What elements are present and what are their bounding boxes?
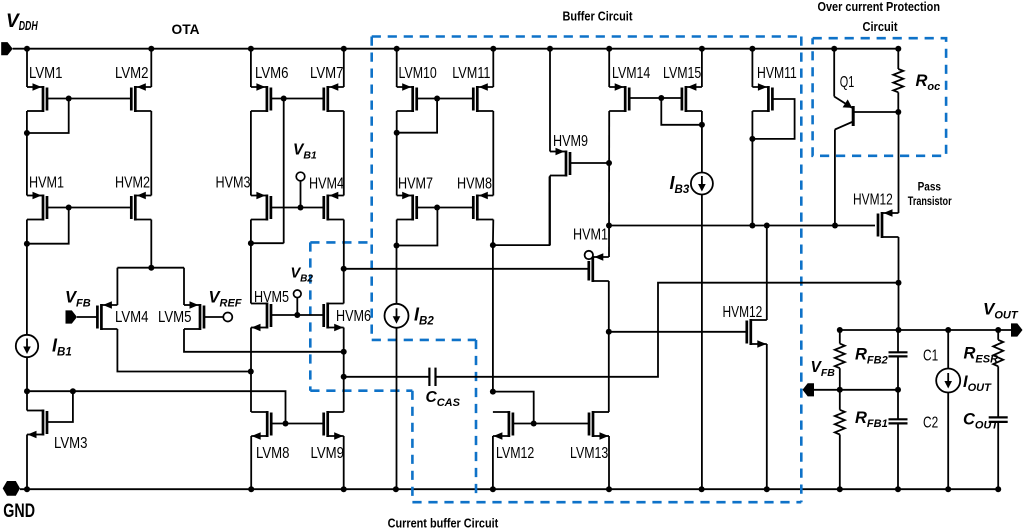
svg-text:LVM4: LVM4 bbox=[115, 309, 149, 326]
wire IB1 to LVM3 node bbox=[26, 357, 28, 391]
wire LVM10 source bbox=[396, 49, 398, 87]
junction LVM5 drain HVM6 source bbox=[341, 349, 347, 355]
wire LVM7 source bbox=[343, 49, 345, 87]
dashed Buffer Circuit box right bbox=[800, 37, 803, 503]
svg-text:LVM15: LVM15 bbox=[663, 65, 701, 82]
svg-text:HVM7: HVM7 bbox=[398, 176, 433, 193]
junction LVM10 gate node bbox=[434, 96, 440, 102]
junction pass drain VOUT bbox=[896, 327, 902, 333]
wire HVM11 gate tie bbox=[752, 99, 794, 139]
dashed Current buffer box left bbox=[309, 242, 312, 390]
svg-text:LVM14: LVM14 bbox=[612, 65, 651, 82]
junction HVM7 drain node bbox=[394, 243, 400, 249]
junction HVM1 gate node bbox=[66, 205, 72, 211]
junction on VDDH rail bbox=[749, 46, 755, 52]
junction on GND rail bbox=[945, 486, 951, 492]
wire VFB feedback bbox=[814, 389, 898, 391]
dashed Current buffer box bottom bbox=[310, 389, 412, 392]
svg-text:Over current Protection: Over current Protection bbox=[818, 0, 941, 14]
junction on GND rail bbox=[24, 486, 30, 492]
junction OTA output node bbox=[341, 266, 347, 272]
wire Roc bottom bbox=[897, 92, 899, 112]
junction on VDDH rail bbox=[394, 46, 400, 52]
junction on VDDH rail bbox=[248, 46, 254, 52]
svg-text:LVM7: LVM7 bbox=[310, 65, 344, 82]
transistor LVM9 bbox=[311, 411, 345, 462]
transistor HVM3 bbox=[216, 175, 271, 221]
junction LVM14 gate node bbox=[658, 95, 664, 101]
svg-text:Pass: Pass bbox=[918, 180, 941, 194]
wire VDDH top rail bbox=[13, 48, 899, 50]
wire LVM14 source bbox=[608, 49, 610, 87]
junction on GND rail bbox=[764, 486, 770, 492]
wire HVM4 drain to OTA output bbox=[343, 220, 345, 269]
transistor HVM12b bbox=[723, 304, 767, 348]
svg-text:CCAS: CCAS bbox=[426, 389, 461, 409]
junction on VDDH rail bbox=[341, 46, 347, 52]
wire LVM14-LVM15 gates bbox=[629, 97, 682, 99]
wire VFB to LVM4 gate bbox=[77, 316, 97, 318]
svg-text:Circuit: Circuit bbox=[863, 20, 899, 34]
svg-text:VB1: VB1 bbox=[293, 142, 317, 162]
dashed Buffer Circuit box top bbox=[372, 35, 802, 38]
wire HVM1-HVM2 gates bbox=[47, 207, 131, 209]
junction IB1 LVM3 drain node bbox=[24, 388, 30, 394]
transistor HVM6 bbox=[324, 303, 371, 332]
wire LVM15 drain to IB3 bbox=[701, 125, 703, 173]
junction LVM6 gate node bbox=[281, 96, 287, 102]
wire buffer HVM12 source to GND bbox=[766, 344, 768, 489]
wire HVM5-HVM6 gates bbox=[271, 314, 323, 316]
wire HVM3 drain to HVM5 bbox=[250, 220, 252, 304]
wire buffer HVM12 drain bbox=[766, 226, 768, 321]
transistor LVM3 bbox=[27, 410, 88, 453]
svg-text:HVM11: HVM11 bbox=[757, 65, 797, 82]
junction HVM11 on gate wire bbox=[749, 223, 755, 229]
svg-text:LVM2: LVM2 bbox=[115, 65, 149, 82]
transistor LVM6 bbox=[251, 65, 289, 112]
junction CCAS VOUT tap bbox=[896, 280, 902, 286]
transistor LVM11 bbox=[452, 65, 493, 112]
junction IOUT top bbox=[945, 327, 951, 333]
junction RFB2 top bbox=[837, 327, 843, 333]
svg-text:Transistor: Transistor bbox=[908, 194, 952, 208]
wire LVM1 drain to HVM1 bbox=[26, 111, 28, 196]
ground GND symbol bbox=[3, 481, 20, 496]
dashed Current buffer box right bbox=[411, 391, 414, 503]
wire COUT to GND bbox=[997, 422, 999, 489]
junction LVM4 drain HVM5 source bbox=[248, 369, 254, 375]
junction on GND rail bbox=[895, 486, 901, 492]
wire Q1 base to Roc bbox=[853, 111, 898, 113]
junction on VDDH rail bbox=[831, 46, 837, 52]
wire C1 bottom lead bbox=[897, 356, 899, 389]
wire HVM11 drain from rail bbox=[751, 49, 753, 87]
junction LVM15 drain node bbox=[699, 122, 705, 128]
wire CCAS left bbox=[344, 376, 430, 378]
current source IOUT bbox=[936, 369, 960, 393]
junction on GND rail bbox=[699, 486, 705, 492]
junction Roc bottom node bbox=[895, 109, 901, 115]
svg-text:HVM3: HVM3 bbox=[216, 175, 251, 192]
transistor LVM15 bbox=[663, 65, 702, 112]
resistor RESR bbox=[993, 340, 1003, 367]
wire CCAS to VOUT bbox=[436, 283, 899, 377]
wire VB2 stem bbox=[296, 298, 298, 315]
junction RESR top bbox=[995, 327, 1001, 333]
svg-text:OTA: OTA bbox=[172, 22, 200, 37]
wire HVM11 source down bbox=[751, 111, 753, 226]
wire HVM3 drain tie bbox=[251, 242, 284, 244]
junction on GND rail bbox=[393, 486, 399, 492]
svg-text:IB3: IB3 bbox=[670, 173, 690, 196]
junction LVM8 gate node bbox=[283, 421, 289, 427]
wire Roc top bbox=[897, 49, 899, 69]
transistor LVM7 bbox=[310, 65, 344, 112]
transistor HVM1 bbox=[573, 227, 609, 283]
svg-text:Roc: Roc bbox=[916, 72, 941, 93]
wire LVM3 gate tie bbox=[47, 391, 73, 422]
junction on VDDH rail bbox=[606, 46, 612, 52]
capacitor C2 bbox=[889, 419, 908, 423]
svg-text:LVM9: LVM9 bbox=[311, 445, 345, 462]
wire IOUT to GND bbox=[947, 393, 949, 490]
wire IB2 top bbox=[396, 246, 398, 305]
wire LVM10 gate-drain tie bbox=[397, 99, 437, 133]
wire Roc to HVM12 source bbox=[898, 112, 900, 213]
wire LVM8-LVM9 gates bbox=[271, 423, 323, 425]
svg-text:HVM1: HVM1 bbox=[573, 227, 608, 244]
wire RFB1 to GND bbox=[839, 435, 841, 490]
wire LVM2 drain to HVM2 bbox=[150, 111, 152, 196]
wire LVM11 source bbox=[492, 49, 494, 87]
transistor LVM12 bbox=[493, 411, 534, 462]
svg-text:C1: C1 bbox=[923, 348, 938, 365]
wire LVM13 source to GND bbox=[608, 436, 610, 489]
wire LVM3 source to GND bbox=[26, 435, 28, 490]
junction on GND rail bbox=[606, 486, 612, 492]
wire LVM8 source to GND bbox=[250, 436, 252, 489]
svg-text:HVM12: HVM12 bbox=[853, 192, 893, 209]
junction HVM8 drain node bbox=[490, 242, 496, 248]
svg-text:RFB2: RFB2 bbox=[855, 346, 888, 367]
svg-text:VB2: VB2 bbox=[291, 266, 314, 285]
junction on VDDH rail bbox=[547, 46, 553, 52]
junction HVM9 gate node bbox=[606, 160, 612, 166]
dashed Buffer Circuit box left bbox=[370, 37, 373, 340]
wire RFB2 to RFB1 bbox=[839, 368, 841, 410]
terminal VFB input bbox=[66, 310, 78, 323]
transistor LVM14 bbox=[609, 65, 650, 112]
current source IB2 bbox=[385, 304, 409, 328]
junction on GND rail bbox=[248, 486, 254, 492]
wire LVM4 drain to HVM5 source node bbox=[117, 329, 250, 372]
junction HVM3 drain node bbox=[248, 240, 254, 246]
transistor HVM8 bbox=[457, 176, 493, 221]
wire LVM11 drain to HVM8 bbox=[492, 111, 494, 196]
wire LVM5 gate to VREF bbox=[204, 316, 223, 318]
wire LVM1 gate-drain tie bbox=[27, 99, 69, 134]
junction VB2 node bbox=[294, 312, 300, 318]
wire IOUT top lead bbox=[947, 330, 949, 369]
resistor Roc bbox=[893, 69, 903, 92]
svg-text:GND: GND bbox=[3, 501, 35, 522]
wire LVM4 source bbox=[116, 268, 118, 305]
svg-text:HVM8: HVM8 bbox=[457, 176, 492, 193]
wire HVM8 drain down to LVM12 bbox=[492, 220, 494, 392]
transistor HVM2 bbox=[115, 175, 151, 221]
svg-text:HVM9: HVM9 bbox=[553, 133, 588, 150]
dashed Buffer Circuit box step bbox=[372, 339, 476, 342]
wire HVM9 drain from rail bbox=[549, 49, 551, 152]
svg-text:LVM1: LVM1 bbox=[29, 65, 63, 82]
wire VB1 stem bbox=[300, 181, 302, 208]
wire LVM6-LVM7 gates bbox=[271, 98, 324, 100]
svg-text:HVM4: HVM4 bbox=[309, 176, 344, 193]
svg-text:RESR: RESR bbox=[964, 345, 999, 366]
junction HVM11 source node bbox=[749, 136, 755, 142]
svg-text:VFB: VFB bbox=[65, 289, 91, 310]
wire HVM1 gate-drain tie bbox=[27, 208, 69, 244]
wire to HVM12 gate bbox=[609, 331, 747, 333]
wire IB2 to GND bbox=[396, 328, 398, 489]
svg-text:RFB1: RFB1 bbox=[855, 409, 888, 430]
svg-text:VREF: VREF bbox=[209, 289, 242, 310]
transistor LVM13 bbox=[570, 411, 609, 462]
wire HVM5 source to LVM8 drain bbox=[250, 328, 252, 413]
svg-text:Q1: Q1 bbox=[840, 74, 855, 91]
wire LVM5 source bbox=[183, 268, 185, 305]
junction LVM12 drain node bbox=[490, 389, 496, 395]
svg-text:LVM13: LVM13 bbox=[570, 445, 608, 462]
junction LVM1 drain node bbox=[24, 130, 30, 136]
svg-text:LVM6: LVM6 bbox=[255, 65, 289, 82]
junction on VDDH rail bbox=[24, 46, 30, 52]
wire HVM1 source to LVM13 drain bbox=[608, 281, 610, 412]
svg-text:IB1: IB1 bbox=[52, 336, 72, 359]
junction HVM12 gate node bbox=[606, 329, 612, 335]
capacitor COUT bbox=[989, 417, 1008, 422]
svg-text:COUT: COUT bbox=[963, 411, 999, 432]
wire diff pair tail bbox=[117, 267, 184, 269]
svg-text:VOUT: VOUT bbox=[983, 300, 1019, 322]
wire LVM12 gate-drain tie bbox=[493, 392, 534, 424]
terminal VFB output bbox=[803, 383, 815, 396]
terminal VOUT output bbox=[1011, 323, 1023, 336]
svg-text:LVM5: LVM5 bbox=[158, 309, 192, 326]
transistor HVM9 bbox=[550, 133, 588, 177]
wire LVM12 source to GND bbox=[492, 436, 494, 489]
wire RESR to COUT bbox=[997, 366, 999, 417]
svg-text:IOUT: IOUT bbox=[963, 373, 992, 394]
wire RFB2 top lead bbox=[839, 330, 841, 344]
svg-text:LVM8: LVM8 bbox=[256, 445, 290, 462]
wire HVM7-HVM8 gates bbox=[417, 207, 474, 209]
wire LVM6 gate to HVM3 drain bbox=[283, 99, 285, 244]
wire LVM1 source bbox=[26, 49, 28, 87]
junction LVM10 drain node bbox=[394, 130, 400, 136]
transistor HVM12pass bbox=[853, 192, 899, 239]
wire GND bottom rail bbox=[20, 488, 998, 490]
transistor HVM7 bbox=[397, 176, 433, 221]
wire LVM15 source bbox=[701, 49, 703, 87]
wire LVM6 drain to HVM3 bbox=[250, 111, 252, 196]
dashed Buffer Circuit box bottom bbox=[412, 501, 801, 504]
junction on GND rail bbox=[341, 486, 347, 492]
transistor HVM1 bbox=[27, 175, 64, 221]
junction LVM3 gate tap bbox=[70, 388, 76, 394]
transistor HVM5 bbox=[251, 289, 289, 331]
junction HVM12 gate wire tap bbox=[606, 223, 612, 229]
current source IB3 bbox=[691, 173, 713, 195]
wire HVM1 drain to IB1 bbox=[26, 220, 28, 335]
wire LVM6 source bbox=[250, 49, 252, 87]
junction on VDDH rail bbox=[895, 46, 901, 52]
wire HVM6 drain bbox=[343, 269, 345, 304]
capacitor CCAS bbox=[429, 368, 435, 386]
svg-text:LVM11: LVM11 bbox=[452, 65, 490, 82]
junction feedback node bbox=[837, 387, 843, 393]
junction VB1 node bbox=[298, 205, 304, 211]
wire C2 top lead bbox=[897, 390, 899, 420]
wire LVM9 source to GND bbox=[343, 436, 345, 489]
junction C1 C2 node bbox=[895, 387, 901, 393]
transistor HVM4 bbox=[309, 176, 344, 221]
wire HVM12 pass gate net bbox=[609, 225, 875, 227]
wire HVM9 gate bbox=[570, 162, 609, 164]
dashed Over current Protection box bbox=[813, 38, 947, 156]
junction on VDDH rail bbox=[490, 46, 496, 52]
wire HVM3-HVM4 gates bbox=[271, 207, 324, 209]
terminal VREF bbox=[223, 313, 232, 322]
transistor LVM1 bbox=[27, 65, 63, 112]
wire LVM1-LVM2 gates bbox=[47, 98, 131, 100]
transistor Q1 bbox=[834, 49, 854, 226]
wire HVM12 drain to VOUT bbox=[898, 237, 900, 330]
svg-text:LVM12: LVM12 bbox=[496, 445, 534, 462]
current source IB1 bbox=[16, 335, 38, 357]
wire LVM5 drain to HVM6 source node bbox=[184, 329, 344, 352]
svg-text:VFB: VFB bbox=[811, 359, 836, 379]
svg-text:HVM5: HVM5 bbox=[254, 289, 289, 306]
wire IB3 to GND bbox=[701, 194, 703, 489]
wire HVM7 gate-drain tie bbox=[397, 208, 438, 246]
wire VOUT net bbox=[840, 329, 1012, 331]
transistor LVM10 bbox=[397, 65, 437, 112]
wire LVM14 drain down to HVM1 bbox=[608, 111, 610, 257]
junction on VDDH rail bbox=[699, 46, 705, 52]
transistor LVM2 bbox=[115, 65, 151, 112]
dashed Current buffer box top bbox=[310, 241, 371, 244]
svg-text:HVM6: HVM6 bbox=[336, 308, 371, 325]
junction on VDDH rail bbox=[148, 46, 154, 52]
wire RESR top lead bbox=[997, 330, 999, 340]
capacitor C1 bbox=[889, 352, 908, 356]
transistor LVM8 bbox=[251, 411, 289, 462]
svg-text:C2: C2 bbox=[923, 415, 938, 432]
wire LVM10-LVM11 gates bbox=[417, 98, 474, 100]
wire C2 to GND bbox=[897, 423, 899, 489]
wire LVM7 drain to HVM4 bbox=[343, 111, 345, 196]
wire OTA output to HVM1 gate bbox=[344, 268, 589, 270]
resistor RFB2 bbox=[835, 344, 845, 369]
svg-text:IB2: IB2 bbox=[414, 305, 434, 328]
junction buffer HVM12 drain tap bbox=[764, 223, 770, 229]
wire LVM10 drain to HVM7 bbox=[396, 111, 398, 196]
svg-text:HVM1: HVM1 bbox=[29, 175, 64, 192]
junction CCAS tap bbox=[341, 374, 347, 380]
junction diff pair tail bbox=[148, 265, 154, 271]
junction LVM12 gate node bbox=[531, 421, 537, 427]
junction LVM1 gate node bbox=[66, 96, 72, 102]
wire LVM2 source bbox=[150, 49, 152, 87]
wire LVM15 drain bbox=[701, 111, 703, 125]
dashed Buffer Circuit box step down bbox=[475, 340, 478, 496]
junction on GND rail bbox=[995, 486, 1001, 492]
terminal VB2 bbox=[294, 290, 302, 298]
resistor RFB1 bbox=[835, 410, 845, 435]
wire LVM15 gate-drain tie bbox=[661, 98, 702, 125]
svg-text:LVM3: LVM3 bbox=[54, 435, 88, 452]
transistor HVM11 bbox=[752, 65, 796, 112]
wire HVM6 source to LVM9 drain bbox=[343, 328, 345, 413]
wire HVM7 drain bbox=[396, 220, 398, 246]
junction HVM1 drain node bbox=[24, 241, 30, 247]
terminal VB1 bbox=[296, 172, 305, 181]
wire LVM3 node to LVM8 LVM9 gates bbox=[27, 391, 286, 423]
junction on GND rail bbox=[490, 486, 496, 492]
svg-text:Buffer Circuit: Buffer Circuit bbox=[563, 10, 634, 24]
terminal VDDH input bbox=[1, 42, 13, 55]
junction Q1 collector tap bbox=[832, 223, 838, 229]
svg-text:HVM12: HVM12 bbox=[723, 304, 763, 321]
wire HVM9 source down bbox=[549, 176, 551, 246]
transistor LVM5 bbox=[158, 301, 204, 330]
transistor LVM4 bbox=[97, 301, 148, 330]
junction HVM7 gate node bbox=[434, 205, 440, 211]
junction on GND rail bbox=[837, 486, 843, 492]
svg-text:VDDH: VDDH bbox=[6, 11, 38, 33]
wire C1 top lead bbox=[897, 330, 899, 352]
wire HVM2 drain to diff pair tail bbox=[150, 220, 152, 268]
svg-text:Current buffer Circuit: Current buffer Circuit bbox=[388, 517, 499, 528]
wire LVM3 drain bbox=[26, 391, 28, 410]
svg-text:LVM10: LVM10 bbox=[399, 65, 437, 82]
wire LVM12-LVM13 gates bbox=[513, 423, 589, 425]
wire HVM8 drain to HVM9 source bbox=[493, 177, 550, 246]
svg-text:HVM2: HVM2 bbox=[115, 175, 150, 192]
